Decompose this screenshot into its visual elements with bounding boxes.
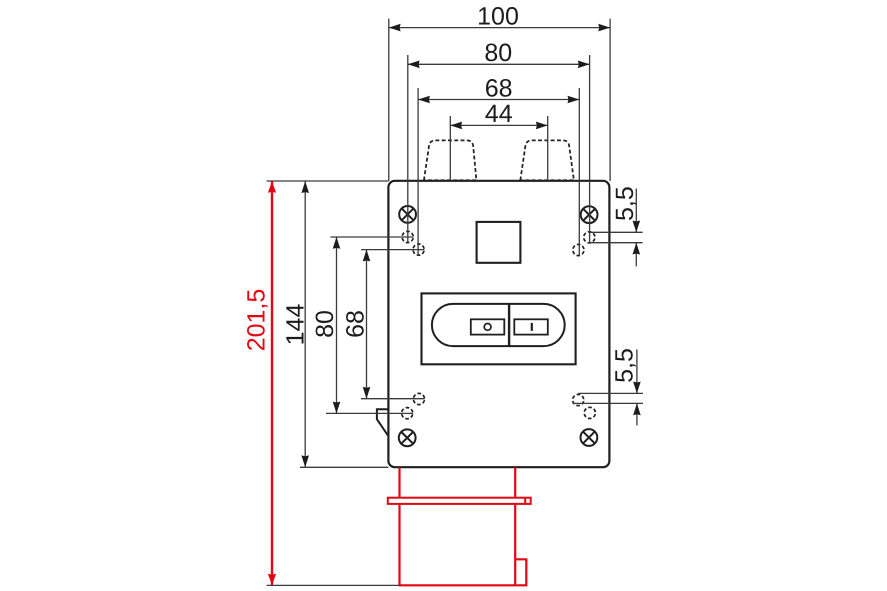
plug neck right (red) — [514, 467, 516, 497]
mounting hole bottom-right inner (dashed) — [573, 394, 584, 405]
svg-text:80: 80 — [484, 39, 512, 67]
plug flange (red) — [388, 498, 531, 504]
dimension 201.5 arrow bottom (red) — [268, 574, 276, 586]
button O symbol — [484, 324, 491, 331]
screw bottom-left — [399, 429, 416, 446]
switch divider — [508, 304, 510, 346]
cable entry right (dashed trapezoid) — [520, 140, 574, 180]
dimension 68 left arrow bottom — [363, 387, 371, 399]
dimension 5.5 top arrow lower — [633, 243, 641, 255]
dimension 5.5 bottom extension lower — [573, 402, 644, 404]
svg-text:5,5: 5,5 — [611, 186, 639, 221]
dimension 68 top line — [418, 99, 579, 101]
dimension 80 top extension left — [407, 55, 409, 243]
switch plate rectangle — [422, 293, 576, 364]
dimension 100 extension line right — [609, 19, 611, 181]
dimension 144 line — [304, 181, 306, 467]
dimension 5.5 top arrow line upper — [635, 189, 637, 233]
dimension 80 top extension right — [589, 55, 591, 243]
dimension 5.5 bottom arrow lower — [633, 403, 641, 415]
svg-text:68: 68 — [341, 310, 369, 338]
svg-text:144: 144 — [281, 304, 309, 346]
dimension 68 left line — [366, 250, 368, 399]
dimension 44 extension left — [449, 116, 451, 180]
mounting hole top-right inner (dashed) — [573, 244, 584, 255]
screw top-right — [581, 206, 598, 223]
dimension 100 arrow left — [389, 24, 401, 32]
dimension 44 arrow left — [450, 122, 462, 130]
mounting hole top-right outer (dashed) — [584, 232, 595, 243]
mounting hole bottom-left outer (dashed) — [402, 408, 413, 419]
dimension 5.5 top extension upper — [589, 231, 642, 233]
svg-text:201,5: 201,5 — [242, 289, 270, 352]
window square — [477, 222, 521, 263]
mounting hole A top-left outer (dashed) — [402, 231, 413, 242]
dimension 68 top arrow left — [418, 96, 430, 104]
dimension 80 top arrow right — [578, 61, 590, 69]
clip tab bottom-left — [377, 409, 389, 435]
plug flange divider (red) — [524, 498, 526, 504]
dimension 68 left arrow top — [363, 250, 371, 262]
dimension 144 bottom extension — [300, 466, 388, 468]
dimension 100 line — [389, 27, 610, 29]
screw bottom-right — [581, 429, 598, 446]
dimension 68 left bottom extension — [361, 398, 425, 400]
dimension 44 arrow right — [536, 122, 548, 130]
dimension 68 left top extension — [361, 249, 424, 251]
svg-text:5,5: 5,5 — [611, 348, 639, 383]
dimension 80 left arrow bottom — [333, 402, 341, 414]
dimension 5.5 top extension lower — [588, 242, 642, 244]
mounting hole bottom-left inner (dashed) — [413, 393, 424, 404]
dimension 100 arrow right — [598, 24, 610, 32]
dimension 5.5 bottom extension upper — [579, 392, 644, 394]
dimension 44 line — [450, 124, 547, 126]
plug body (red) — [400, 504, 527, 585]
dimension 201.5 arrow top (red) — [268, 181, 276, 193]
dimension 44 extension right — [547, 116, 549, 180]
svg-text:80: 80 — [311, 310, 339, 338]
dimension 5.5 bottom arrow line upper — [636, 349, 638, 393]
shared top extension line left side — [267, 180, 389, 182]
dimension 80 top arrow left — [408, 61, 420, 69]
svg-text:44: 44 — [485, 100, 513, 128]
dimension 80 left arrow top — [333, 237, 341, 249]
button O rectangle — [471, 319, 505, 334]
dimension 80 top line — [408, 63, 590, 65]
dimension 80 left top extension — [331, 236, 414, 238]
cable entry left (dashed trapezoid) — [424, 140, 477, 180]
switch rocker stadium — [432, 304, 565, 346]
svg-text:100: 100 — [477, 3, 519, 31]
dimension 68 top arrow right — [568, 96, 580, 104]
mounting hole bottom-right outer (dashed) — [584, 407, 595, 418]
dimension 5.5 top arrow upper — [633, 221, 641, 233]
mounting hole B top-left inner (dashed) — [413, 244, 424, 255]
dimension 144 arrow bottom — [301, 455, 309, 467]
dimension 5.5 bottom arrow line lower — [636, 403, 638, 425]
enclosure body outline — [388, 181, 609, 467]
dimension 201.5 bottom extension — [267, 584, 400, 586]
button I symbol — [531, 323, 533, 331]
dimension 68 top extension right — [578, 88, 580, 256]
dimension 5.5 bottom arrow upper — [633, 382, 641, 394]
dimension 100 extension line left — [388, 19, 390, 181]
screw top-left — [399, 206, 416, 223]
dimension 80 left bottom extension — [326, 412, 413, 414]
dimension 201.5 line (red) — [271, 181, 273, 585]
dimension 144 arrow top — [301, 181, 309, 193]
plug neck left (red) — [398, 467, 400, 497]
svg-text:68: 68 — [485, 74, 513, 102]
dimension 80 left line — [336, 237, 338, 413]
button I rectangle — [514, 319, 548, 334]
dimension 68 top extension left — [417, 88, 419, 255]
dimension 5.5 top arrow line lower — [635, 243, 637, 267]
